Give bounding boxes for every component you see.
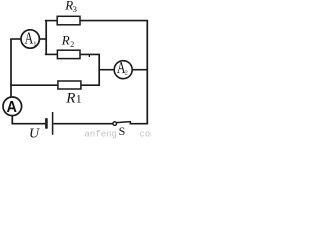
svg-text:com: com xyxy=(140,130,152,140)
svg-text:U: U xyxy=(29,127,40,140)
wire: R3 left lead xyxy=(45,20,57,22)
wire: ammeter A1 left lead xyxy=(10,38,20,40)
wire: R3 right lead to right bus xyxy=(80,20,148,22)
svg-text:anfeng: anfeng xyxy=(85,130,117,140)
wire: node vertical joining R2 and R1 right ends xyxy=(98,54,100,86)
wire: bottom wire right (switch to right bus) xyxy=(130,123,149,125)
svg-text:S: S xyxy=(119,124,126,138)
svg-text:1: 1 xyxy=(76,94,82,106)
svg-text:A: A xyxy=(7,99,17,116)
svg-text:R: R xyxy=(65,90,75,106)
battery U negative plate (short thick) xyxy=(45,118,48,129)
wire: ammeter A bottom stub xyxy=(11,116,13,125)
wire: right vertical bus xyxy=(146,21,148,124)
battery U positive plate (long thin) xyxy=(52,112,54,135)
svg-text:2: 2 xyxy=(125,71,128,77)
resistor R3 xyxy=(57,16,80,25)
label R2 xyxy=(61,32,74,49)
wire: bottom wire middle (battery to switch) xyxy=(53,123,113,125)
label R3 xyxy=(64,0,77,14)
junction tick on R2 right wire xyxy=(88,54,90,57)
svg-text:R: R xyxy=(61,32,70,47)
wire: R2 right lead xyxy=(80,53,99,55)
wire: ammeter A2 left lead xyxy=(99,69,114,71)
ammeter A1 xyxy=(21,28,39,48)
wire: ammeter A2 right lead xyxy=(132,69,147,71)
wire: R1 right lead xyxy=(81,84,99,86)
resistor R2 xyxy=(57,50,80,58)
svg-text:3: 3 xyxy=(73,4,77,14)
wire: ammeter A1 right lead xyxy=(40,38,47,40)
switch S blade xyxy=(117,122,131,123)
wire: bracket vertical joining R3 and R2 rows xyxy=(45,21,47,55)
svg-text:2: 2 xyxy=(70,40,74,49)
ammeter A2 xyxy=(114,58,132,79)
wire: bottom wire left (A to battery) xyxy=(12,123,45,125)
svg-text:1: 1 xyxy=(33,40,36,47)
ammeter A (main) xyxy=(3,97,22,116)
wire: left vertical bus xyxy=(10,39,12,97)
wire: R2 left lead xyxy=(45,53,58,55)
switch S blade tip tick xyxy=(129,121,131,124)
label R1 xyxy=(65,90,82,106)
switch S pivot xyxy=(113,122,117,126)
resistor R1 xyxy=(58,81,81,89)
wire: R1 left lead to left bus xyxy=(10,84,58,86)
